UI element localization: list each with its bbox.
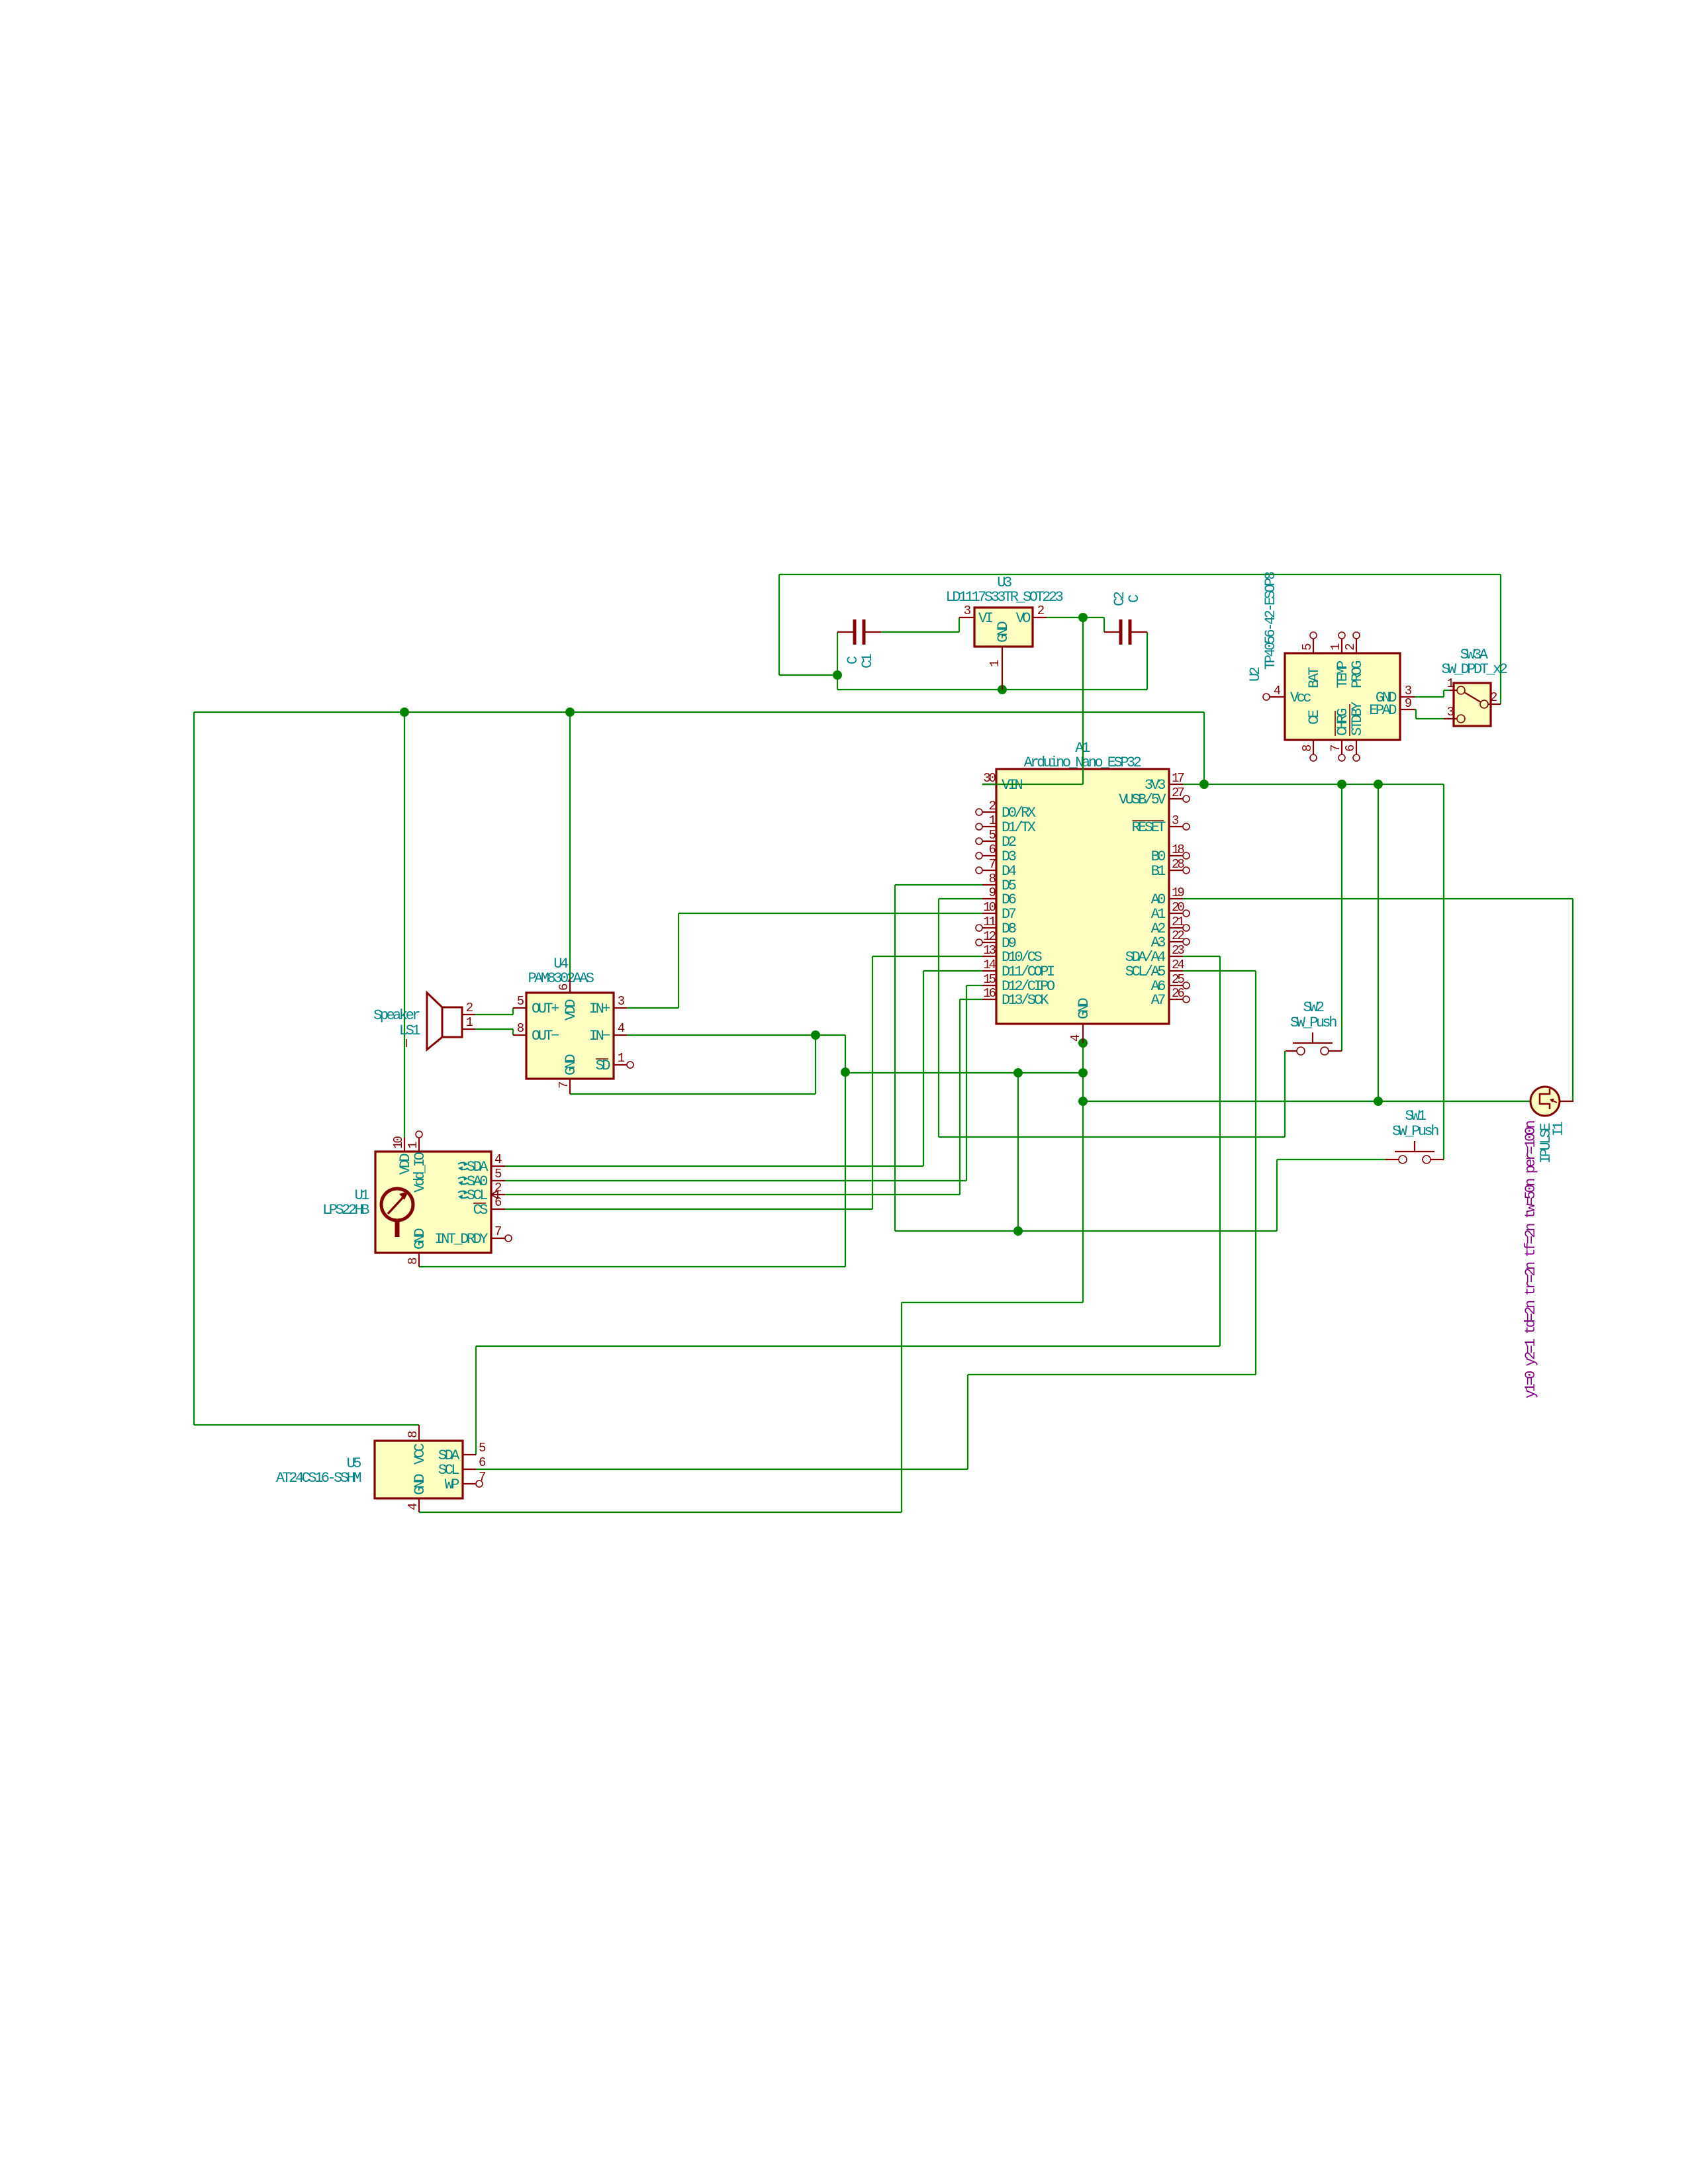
svg-text:C1: C1 <box>859 653 876 668</box>
svg-text:8: 8 <box>1300 745 1315 752</box>
wire GND link x1538 <box>1017 1073 1019 1231</box>
svg-text:Speaker: Speaker <box>373 1007 420 1024</box>
wire SW2 right riser <box>1341 784 1342 1051</box>
pin 6 U4 VDD <box>569 979 571 993</box>
svg-text:VI: VI <box>978 610 993 627</box>
gauge symbol U1 <box>381 1189 413 1220</box>
svg-text:9: 9 <box>989 886 996 900</box>
svg-text:VO: VO <box>1016 610 1031 627</box>
pin 1 U2 TEMP <box>1341 639 1342 653</box>
svg-text:7: 7 <box>494 1224 501 1239</box>
pin 27 A1 VUSB/5V <box>1169 798 1183 799</box>
wire top loop to SW3A <box>779 574 1501 575</box>
pin 4 U2 Vcc <box>1270 696 1285 698</box>
wire SCL/A5 to U5 SCL <box>1183 970 1256 972</box>
node 3V3-IPULSE junction <box>1374 780 1383 789</box>
wire D10 to U1 CS <box>872 956 982 957</box>
node x1277 junction <box>841 1068 850 1077</box>
pin 5 A1 D2 <box>982 841 996 842</box>
eeprom U5 AT24CS16-SSHM <box>375 1441 463 1498</box>
node VO junction <box>1078 613 1088 622</box>
svg-text:4: 4 <box>1068 1034 1083 1042</box>
pin 11 A1 D8 <box>982 927 996 929</box>
pin 24 A1 SCL/A5 <box>1169 970 1183 972</box>
pin 8 U5 VCC <box>418 1425 420 1441</box>
pin 9 U2 EPAD <box>1400 709 1415 710</box>
svg-text:INT_DRDY: INT_DRDY <box>434 1231 488 1248</box>
pin 28 A1 B1 <box>1169 870 1183 871</box>
pin 6 U2 STDBY <box>1356 740 1357 754</box>
pin 6 A1 D3 <box>982 855 996 856</box>
svg-text:10: 10 <box>391 1136 406 1149</box>
svg-text:4: 4 <box>406 1503 420 1510</box>
pin 3 A1 RESET <box>1169 826 1183 827</box>
pin 3 SW3A <box>1444 718 1457 719</box>
svg-text:2: 2 <box>466 1001 473 1015</box>
svg-text:8: 8 <box>406 1257 420 1265</box>
svg-text:11: 11 <box>983 915 996 929</box>
svg-text:7: 7 <box>989 857 996 872</box>
svg-text:TP4056-42-ESOP8: TP4056-42-ESOP8 <box>1262 572 1279 670</box>
wire VIN overlay <box>982 784 1083 785</box>
svg-text:2: 2 <box>1343 643 1358 651</box>
sensor U1 LPS22HB <box>375 1152 491 1253</box>
node GND stub junction <box>1078 1038 1088 1048</box>
svg-text:SW2: SW2 <box>1303 999 1323 1016</box>
pin 6 U5 SCL <box>463 1469 476 1470</box>
pin 17 A1 3V3 <box>1169 784 1183 785</box>
pin 1 U1 Vdd_IO <box>418 1138 420 1152</box>
svg-text:D13/SCK: D13/SCK <box>1002 992 1049 1009</box>
svg-text:24: 24 <box>1172 958 1184 972</box>
node C1 junction <box>833 670 842 680</box>
switch SW3A SW_DPDT_x2 <box>1454 683 1491 726</box>
svg-text:1: 1 <box>618 1051 625 1066</box>
svg-text:30: 30 <box>983 771 996 786</box>
svg-text:5: 5 <box>494 1167 502 1181</box>
svg-text:4: 4 <box>618 1021 625 1036</box>
svg-text:VIN: VIN <box>1002 777 1022 794</box>
svg-text:IN−: IN− <box>589 1028 610 1044</box>
capacitor C2 <box>1104 631 1119 633</box>
wire 3V3 pin rail <box>1183 784 1444 785</box>
svg-text:15: 15 <box>983 972 996 987</box>
svg-text:SW_Push: SW_Push <box>1290 1015 1336 1031</box>
pin 2 U1 SCL <box>491 1194 505 1195</box>
pin 6 U1 CS <box>491 1208 505 1210</box>
wire D7 to U4 IN+ <box>679 913 982 914</box>
pin 1 SW3A <box>1450 690 1457 691</box>
svg-text:Vdd_IO: Vdd_IO <box>412 1152 428 1193</box>
pin 30 A1 VIN <box>982 784 996 785</box>
svg-text:1: 1 <box>406 1142 420 1149</box>
pin 1 LS1 <box>462 1028 475 1030</box>
svg-text:VCC: VCC <box>412 1443 428 1465</box>
node 3V3-VO junction <box>1199 780 1209 789</box>
pin 1 A1 D1/TX <box>982 826 996 827</box>
svg-text:RESET: RESET <box>1131 819 1166 836</box>
pin 3 U3 VI <box>959 617 974 618</box>
node IPULSE riser junction <box>1374 1097 1383 1106</box>
svg-text:6: 6 <box>989 842 996 857</box>
speaker LS1 <box>442 1007 462 1037</box>
svg-text:6: 6 <box>494 1195 502 1210</box>
svg-text:4: 4 <box>1274 684 1281 698</box>
svg-text:23: 23 <box>1172 943 1184 958</box>
pin 26 A1 A7 <box>1169 999 1183 1000</box>
wire U2 GND to SW3A pin1 <box>1415 696 1444 698</box>
pin 4 A1 GND <box>1082 1024 1084 1043</box>
wire IPULSE left <box>1083 1101 1530 1102</box>
pin 2 U3 VO <box>1033 617 1047 618</box>
pin 18 A1 B0 <box>1169 855 1183 856</box>
mcu A1 Arduino_Nano_ESP32 <box>996 769 1169 1024</box>
svg-text:6: 6 <box>479 1455 486 1470</box>
wire speaker to U4 <box>475 1014 513 1015</box>
svg-text:27: 27 <box>1172 786 1184 800</box>
wire C1 to VI <box>881 631 959 633</box>
svg-text:VUSB/5V: VUSB/5V <box>1119 792 1166 808</box>
svg-text:6: 6 <box>1343 745 1358 752</box>
svg-text:AT24CS16-SSHM: AT24CS16-SSHM <box>276 1470 361 1486</box>
wire U2 EPAD to SW3A pin3 <box>1415 709 1416 710</box>
svg-text:3: 3 <box>618 994 625 1009</box>
pin 25 A1 A6 <box>1169 985 1183 986</box>
svg-text:5: 5 <box>1300 643 1315 651</box>
wire GND net from A1 <box>1082 1043 1084 1302</box>
wire D6 to SW2 left <box>939 898 982 899</box>
svg-text:SW_Push: SW_Push <box>1392 1123 1438 1140</box>
pin 4 U5 GND <box>418 1498 420 1512</box>
svg-text:2: 2 <box>1037 604 1045 618</box>
wire D12 to U1 SA0 <box>966 985 982 986</box>
pin 4 U1 SDA <box>491 1165 505 1167</box>
pin 5 U1 SA0 <box>491 1180 505 1181</box>
svg-text:I1: I1 <box>1550 1121 1567 1136</box>
svg-text:1: 1 <box>989 813 996 828</box>
svg-text:GND: GND <box>563 1054 579 1075</box>
pin 22 A1 A3 <box>1169 941 1183 942</box>
svg-text:LS1: LS1 <box>399 1023 420 1039</box>
wire VO to VIN <box>1047 617 1104 618</box>
wire A0 to IPULSE right <box>1183 898 1573 899</box>
pin 16 A1 D13/SCK <box>982 999 996 1000</box>
pin 14 A1 D11/COPI <box>982 970 996 972</box>
pin 20 A1 A1 <box>1169 913 1183 914</box>
pin 7 U1 INT_DRDY <box>491 1238 505 1239</box>
wire C2 left <box>1103 617 1105 632</box>
pin 3 U4 IN+ <box>614 1007 627 1009</box>
pin 19 A1 A0 <box>1169 898 1183 899</box>
svg-text:16: 16 <box>983 986 996 1001</box>
svg-text:GND: GND <box>1076 998 1092 1019</box>
pin 21 A1 A2 <box>1169 927 1183 929</box>
node GND y1621 junction <box>1078 1068 1088 1077</box>
svg-text:PAM8302AAS: PAM8302AAS <box>528 970 594 987</box>
svg-text:WP: WP <box>445 1477 460 1493</box>
pin 8 A1 D5 <box>982 884 996 886</box>
amplifier U4 PAM8302AAS <box>526 993 614 1079</box>
pin 12 A1 D9 <box>982 942 996 943</box>
svg-text:IN+: IN+ <box>589 1001 610 1017</box>
svg-text:5: 5 <box>479 1441 486 1455</box>
wire U4 VDD drop <box>569 712 571 979</box>
capacitor C1 <box>837 631 853 633</box>
svg-text:4: 4 <box>494 1152 502 1167</box>
node 3V3-U1 junction <box>400 707 409 717</box>
svg-text:C: C <box>1126 594 1143 603</box>
svg-text:EPAD: EPAD <box>1369 702 1397 719</box>
pin 2 SW3A <box>1488 704 1501 705</box>
svg-text:B1: B1 <box>1151 863 1166 880</box>
wire D5 to SW1 left <box>895 884 982 886</box>
svg-text:y1=0 y2=1 td=2n tr=2n tf=2n tw: y1=0 y2=1 td=2n tr=2n tf=2n tw=50n per=1… <box>1523 1121 1539 1398</box>
node 3V3-U4 junction <box>565 707 575 717</box>
pin 9 A1 D6 <box>982 898 996 899</box>
pin 7 U2 CHRG <box>1341 740 1342 754</box>
svg-text:OUT−: OUT− <box>532 1028 559 1044</box>
svg-text:12: 12 <box>983 929 996 944</box>
wire 3V3 top rail <box>194 711 1204 713</box>
pin 7 A1 D4 <box>982 870 996 871</box>
svg-text:8: 8 <box>517 1021 524 1036</box>
svg-text:1: 1 <box>466 1015 473 1030</box>
pin 5 U2 BAT <box>1313 639 1314 653</box>
svg-text:10: 10 <box>983 900 996 915</box>
pin 2 A1 D0/RX <box>982 811 996 813</box>
svg-text:5: 5 <box>989 828 996 842</box>
wire GND spur y1621 <box>845 1072 1083 1073</box>
wire U4 IN- GND net <box>627 1034 845 1036</box>
wire C1 left to GND rail <box>837 632 838 675</box>
svg-text:3: 3 <box>964 604 971 618</box>
node U3 GND junction <box>998 685 1007 694</box>
svg-text:1: 1 <box>988 660 1002 667</box>
svg-text:14: 14 <box>983 958 996 972</box>
svg-text:OUT+: OUT+ <box>532 1001 559 1017</box>
node IN- junction <box>811 1030 820 1040</box>
pin 8 U1 GND <box>418 1253 420 1267</box>
svg-text:7: 7 <box>479 1470 485 1484</box>
pin 15 A1 D12/CIPO <box>982 985 996 986</box>
svg-text:8: 8 <box>406 1431 420 1438</box>
current source I1 IPULSE <box>1530 1087 1560 1116</box>
node x1538 bottom junction <box>1013 1226 1023 1236</box>
regulator U3 LD1117S33TR_SOT223 <box>974 608 1033 647</box>
svg-text:17: 17 <box>1172 771 1184 786</box>
svg-text:A7: A7 <box>1151 992 1166 1009</box>
svg-text:BAT: BAT <box>1306 667 1323 688</box>
wire D11 to U1 SDA <box>923 970 982 972</box>
node 3V3-SW2 junction <box>1337 780 1346 789</box>
svg-text:PROG: PROG <box>1349 661 1366 688</box>
svg-text:2: 2 <box>1490 690 1497 705</box>
pin 2 U2 PROG <box>1356 639 1357 653</box>
svg-text:2: 2 <box>989 799 996 813</box>
pin 5 U5 SDA <box>463 1454 476 1455</box>
charger U2 TP4056-42-ESOP8 <box>1285 653 1400 740</box>
wire IPULSE left riser <box>1378 784 1379 1101</box>
pin 23 A1 SDA/A4 <box>1169 956 1183 957</box>
svg-text:8: 8 <box>989 872 996 886</box>
pin 5 U4 OUT+ <box>513 1007 526 1009</box>
svg-text:VDD: VDD <box>563 999 579 1021</box>
pin 8 U2 CE <box>1313 740 1314 754</box>
svg-text:U2: U2 <box>1247 667 1264 682</box>
wire SDA/A4 to U5 SDA <box>1183 956 1220 957</box>
wire 3V3 left rail to U5 <box>193 712 195 1425</box>
svg-text:CE: CE <box>1306 709 1323 725</box>
pin 1 U4 SD <box>614 1064 627 1066</box>
svg-text:7: 7 <box>1329 745 1343 752</box>
svg-text:GND: GND <box>412 1228 428 1250</box>
svg-text:13: 13 <box>983 943 996 958</box>
node x1538 top junction <box>1013 1068 1023 1077</box>
pin 7 U5 WP <box>463 1483 476 1484</box>
svg-text:LPS22HB: LPS22HB <box>322 1202 369 1218</box>
pin 2 LS1 <box>462 1014 475 1015</box>
svg-text:CS: CS <box>473 1202 489 1218</box>
pin 4 U4 IN- <box>614 1034 627 1036</box>
svg-text:Vcc: Vcc <box>1290 690 1311 706</box>
pin 13 A1 D10/CS <box>982 956 996 957</box>
svg-text:5: 5 <box>517 994 524 1009</box>
svg-text:3: 3 <box>1172 813 1179 828</box>
svg-text:SW1: SW1 <box>1405 1108 1426 1124</box>
svg-text:STDBY: STDBY <box>1349 702 1366 736</box>
pin 7 U4 GND <box>569 1079 571 1094</box>
svg-text:7: 7 <box>557 1082 571 1089</box>
wire U4 GND to IN- <box>570 1093 816 1095</box>
pin 1 U3 GND <box>1002 647 1003 690</box>
svg-text:GND: GND <box>995 621 1011 643</box>
pin 10 U1 VDD <box>404 1138 405 1152</box>
wire D13 to U1 SCL <box>960 999 982 1000</box>
svg-text:SW_DPDT_x2: SW_DPDT_x2 <box>1441 661 1507 678</box>
pin 8 U4 OUT- <box>513 1034 526 1036</box>
svg-text:SD: SD <box>596 1058 611 1074</box>
pin 3 U2 GND <box>1400 696 1415 698</box>
node GND y1664 junction <box>1078 1097 1088 1106</box>
pin 10 A1 D7 <box>982 913 996 914</box>
svg-text:9: 9 <box>1405 696 1412 711</box>
svg-text:19: 19 <box>1172 886 1184 900</box>
svg-text:1: 1 <box>1329 643 1343 651</box>
wire U1 VDD drop <box>404 712 405 1138</box>
svg-text:GND: GND <box>412 1474 428 1495</box>
